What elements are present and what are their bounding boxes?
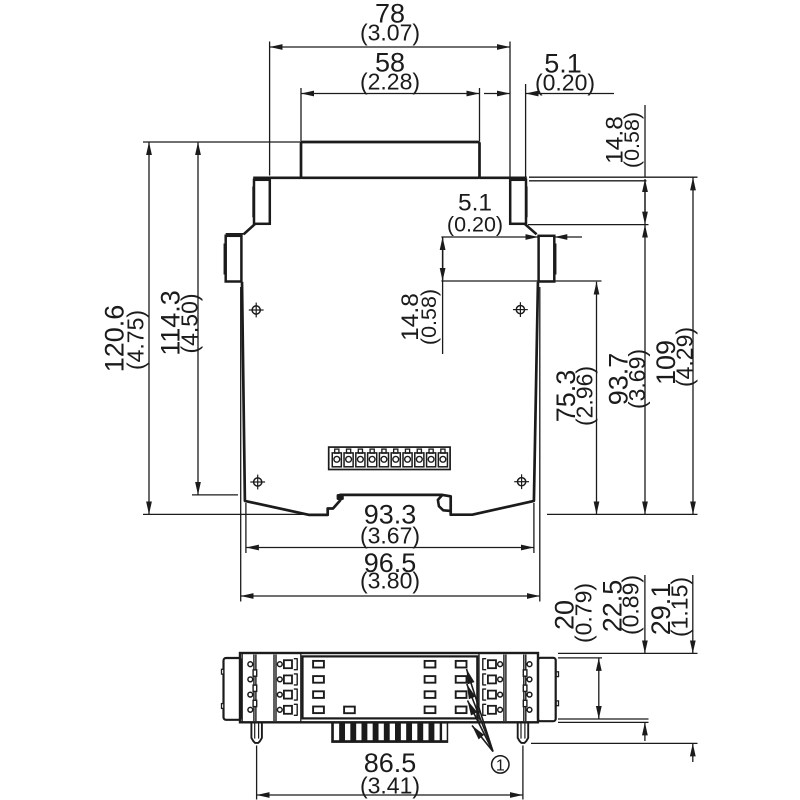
svg-text:(0.20): (0.20) — [447, 213, 503, 237]
screw — [498, 707, 503, 712]
screw — [527, 662, 532, 667]
clamp square — [284, 691, 292, 699]
screw — [248, 677, 253, 682]
dim 96.5 (3.80) — [240, 287, 242, 602]
solder pad — [313, 676, 324, 683]
pin slot — [367, 724, 372, 741]
cavity bracket — [483, 674, 486, 685]
svg-text:(1.15): (1.15) — [667, 577, 693, 637]
screw — [527, 692, 532, 697]
solder pad — [456, 691, 467, 698]
solder pad — [425, 676, 436, 683]
pin slot end — [442, 724, 447, 741]
callout 1 — [492, 756, 509, 773]
dim 5.1 (0.20) mid right — [441, 236, 538, 238]
screw — [248, 707, 253, 712]
svg-text:(2.96): (2.96) — [572, 366, 598, 426]
screw — [498, 692, 503, 697]
screw — [498, 662, 503, 667]
interlock stub — [523, 685, 527, 691]
cavity bracket — [294, 659, 297, 670]
terminal 1 — [332, 453, 341, 467]
clamp square — [488, 660, 496, 668]
interlock stub — [253, 700, 257, 706]
cavity bracket — [294, 704, 297, 715]
pin slot — [334, 724, 339, 741]
DIN clip curl — [438, 495, 451, 511]
centre module block — [300, 653, 302, 722]
terminal 8 — [415, 453, 424, 467]
dim 29.1 (1.15) — [692, 575, 694, 653]
svg-text:(4.50): (4.50) — [176, 293, 202, 353]
pin slot — [412, 724, 417, 741]
pin slot — [345, 724, 350, 741]
left shoulder — [253, 177, 301, 180]
screw — [277, 707, 282, 712]
solder pad — [456, 707, 467, 714]
right end plate — [538, 658, 556, 721]
solder pad — [313, 691, 324, 698]
svg-text:(3.41): (3.41) — [360, 773, 420, 799]
dim 22.5 (0.89) — [644, 575, 646, 653]
left terminal section dividers — [241, 653, 243, 722]
mounting screw crosshair upper-right — [516, 306, 524, 314]
terminal 4 — [368, 453, 377, 467]
svg-text:(0.58): (0.58) — [620, 112, 644, 168]
pin slot — [356, 724, 361, 741]
mounting screw crosshair lower-right — [518, 478, 526, 486]
dim 14.8 (0.58) upper right — [644, 105, 646, 177]
svg-text:(0.79): (0.79) — [571, 583, 597, 643]
cavity bracket — [483, 659, 486, 670]
lower-right side tab — [539, 236, 555, 282]
svg-text:(0.58): (0.58) — [417, 289, 441, 345]
terminal 7 — [403, 453, 412, 467]
dim 93.7 (3.69) — [644, 225, 646, 515]
right foot pin — [518, 722, 529, 743]
svg-text:1: 1 — [496, 758, 505, 775]
screw — [277, 662, 282, 667]
callout leaders to pads — [467, 669, 494, 752]
svg-text:(0.89): (0.89) — [618, 575, 644, 635]
solder pad — [313, 661, 324, 668]
pin comb — [331, 722, 448, 743]
cavity bracket — [294, 674, 297, 685]
screw — [277, 677, 282, 682]
upper-right side tab — [510, 180, 526, 224]
solder pad — [425, 661, 436, 668]
left foot pin — [251, 722, 262, 743]
interlock stub — [523, 700, 527, 706]
terminal 5 — [379, 453, 388, 467]
dim 114.3 (4.50) — [192, 494, 238, 496]
interlock stub — [253, 670, 257, 676]
dim 78 (3.07) — [269, 42, 271, 176]
extension line cap-top left — [143, 141, 301, 143]
pin slot — [379, 724, 384, 741]
clamp square — [284, 706, 292, 714]
left step diagonal — [244, 224, 256, 235]
solder pad — [456, 661, 467, 668]
svg-text:(3.67): (3.67) — [360, 522, 420, 548]
dim 58 (2.28) — [300, 88, 302, 141]
svg-text:(2.28): (2.28) — [360, 69, 420, 95]
cavity bracket — [483, 704, 486, 715]
terminal 3 — [356, 453, 365, 467]
screw — [248, 662, 253, 667]
terminal 6 — [391, 453, 400, 467]
dim 93.3 (3.67) — [245, 503, 247, 553]
dim 20 (0.79) — [598, 658, 600, 719]
terminal 10 — [438, 453, 447, 467]
dim 120.6 (4.75) — [143, 513, 309, 515]
pin slot — [390, 724, 395, 741]
pin slot — [423, 724, 428, 741]
pin slot — [401, 724, 406, 741]
clamp square — [488, 691, 496, 699]
right step diagonal — [525, 224, 537, 235]
clamp square — [488, 675, 496, 683]
dim 86.5 (3.41) — [256, 746, 258, 800]
svg-text:(3.07): (3.07) — [360, 20, 420, 46]
DIN hook knob — [337, 494, 344, 500]
clamp square — [488, 706, 496, 714]
screw — [527, 677, 532, 682]
clamp square — [284, 675, 292, 683]
solder pad — [456, 676, 467, 683]
svg-text:(0.20): (0.20) — [535, 70, 595, 96]
mounting screw crosshair upper-left — [252, 306, 260, 314]
solder pad — [425, 691, 436, 698]
connector cap — [301, 142, 480, 178]
bottom view body — [240, 653, 538, 722]
dim 75.3 (2.96) — [596, 282, 598, 515]
svg-text:(4.75): (4.75) — [123, 310, 149, 370]
solder pad single — [344, 707, 355, 714]
terminal strip — [329, 447, 450, 469]
left end plate — [224, 658, 242, 720]
solder pad — [425, 707, 436, 714]
svg-text:(3.80): (3.80) — [360, 567, 420, 593]
dim 14.8 (0.58) mid — [442, 237, 444, 354]
screw — [248, 692, 253, 697]
clamp square — [284, 660, 292, 668]
upper-left side tab — [254, 180, 270, 224]
cavity bracket — [294, 689, 297, 700]
cavity bracket — [483, 689, 486, 700]
terminal 2 — [344, 453, 353, 467]
lower-left tab top connector — [226, 233, 244, 235]
body outline with DIN-rail foot — [242, 282, 538, 515]
screw — [527, 707, 532, 712]
right shoulder — [480, 177, 527, 180]
svg-text:(3.69): (3.69) — [624, 349, 650, 409]
terminal 9 — [427, 453, 436, 467]
screw — [277, 692, 282, 697]
interlock stub — [523, 670, 527, 676]
mounting screw crosshair lower-left — [254, 478, 262, 486]
svg-text:(4.29): (4.29) — [672, 327, 698, 387]
bottom view right extension lines — [558, 652, 698, 654]
dim 5.1 (0.20) top right — [525, 84, 527, 179]
screw — [498, 677, 503, 682]
pin slot — [434, 724, 439, 741]
right extension lines — [529, 176, 698, 178]
lower-left side tab — [226, 236, 242, 282]
solder pad — [313, 707, 324, 714]
interlock stub — [253, 685, 257, 691]
dim 109 (4.29) — [692, 177, 694, 514]
